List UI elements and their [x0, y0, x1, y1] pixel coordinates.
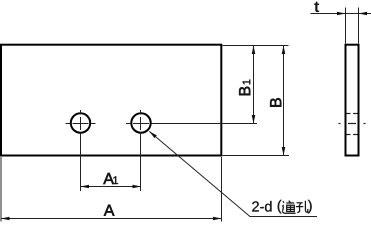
center line vertical left hole — [80, 110, 82, 191]
dimension line A1 — [81, 185, 142, 189]
center line vertical right hole — [140, 110, 142, 191]
hole right — [131, 113, 150, 132]
leader line to right hole — [149, 131, 317, 216]
kanji hole — [296, 201, 308, 213]
dimension t — [311, 8, 371, 44]
dimension line B — [282, 46, 286, 156]
label t thickness — [314, 2, 319, 13]
paren open — [278, 200, 282, 214]
label B1 hole height rotated — [239, 80, 250, 96]
side view hidden lines — [347, 114, 358, 135]
label A overall width — [104, 205, 115, 216]
extension line bottom right — [223, 155, 290, 157]
plate outline front view — [1, 45, 221, 156]
label 2-d — [252, 201, 271, 212]
dimension line A with extension lines — [1, 157, 222, 222]
hole left — [71, 113, 90, 132]
label A1 hole pitch — [103, 173, 118, 184]
paren close — [308, 200, 312, 214]
center line horizontal right hole with extension to B1 — [126, 123, 257, 125]
kanji through — [282, 201, 296, 214]
center line horizontal left hole — [66, 123, 96, 125]
extension line top right — [223, 45, 289, 47]
dimension line B1 — [252, 46, 256, 124]
side view center line — [339, 123, 366, 125]
side view outline — [346, 45, 359, 156]
label B overall height rotated — [270, 98, 281, 107]
